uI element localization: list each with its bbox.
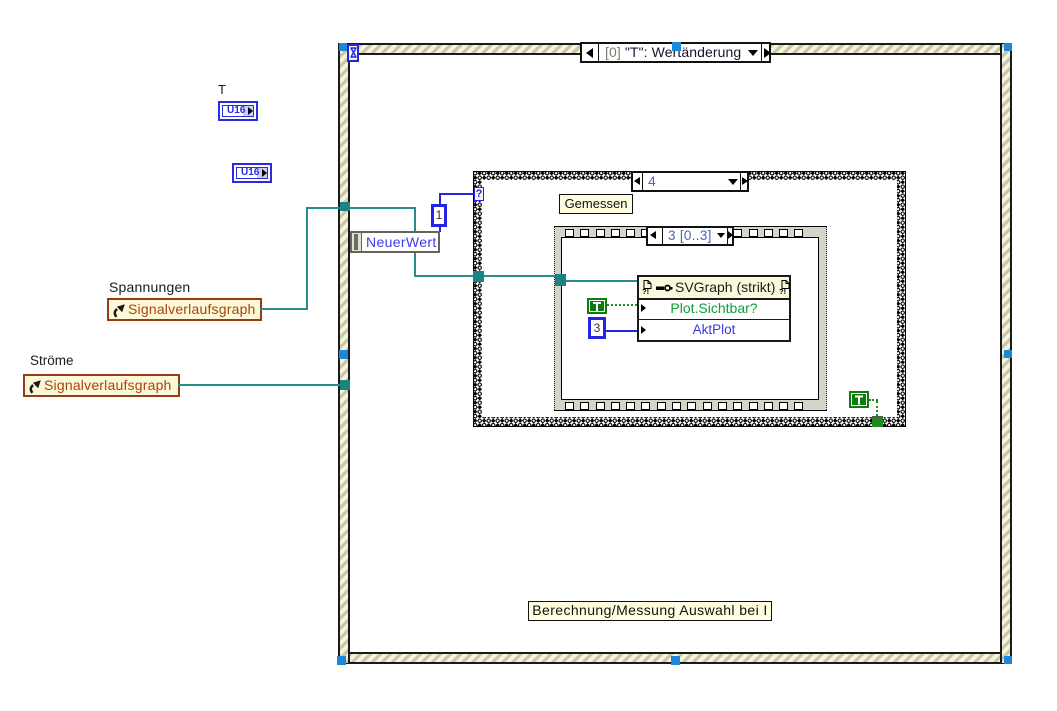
- label Gemessen: [559, 194, 633, 214]
- tunnel Spannungen on event border: [340, 202, 350, 211]
- blue wire 1 to NeuerWert: [439, 227, 441, 232]
- local variable NeuerWert: [350, 231, 440, 253]
- header: [639, 277, 789, 300]
- wire Spannungen horizontal: [260, 308, 308, 310]
- sequence sprocket holes bottom: [565, 402, 574, 410]
- label T: [218, 82, 226, 97]
- sequence left border: [554, 227, 562, 410]
- wire Spannungen to border tunnel: [306, 207, 416, 209]
- wire horizontal to case: [414, 275, 562, 277]
- control refnum Stroeme: Signalverlaufsgraph: [23, 374, 180, 397]
- control refnum Spannungen: Signalverlaufsgraph: [107, 298, 262, 321]
- case structure border strips: [473, 171, 906, 180]
- label Stroeme: [30, 353, 74, 368]
- selection handle top-right: [1004, 43, 1012, 51]
- page icon right: [781, 280, 790, 289]
- row AktPlot: [639, 320, 789, 340]
- sequence label 3 [0..3]: [646, 226, 734, 246]
- selection handle mid-left: [339, 350, 348, 359]
- blue wire 1 to selector: [439, 193, 441, 204]
- blue wire 3 to node: [606, 330, 637, 332]
- timeout terminal (hourglass): [347, 44, 359, 62]
- dotted wire T to node: [607, 304, 637, 306]
- green tunnel on case bottom border: [872, 416, 883, 427]
- case selector terminal ?: [474, 187, 484, 201]
- sequence bottom border: [554, 399, 827, 411]
- label Spannungen: [109, 279, 190, 295]
- title: [675, 279, 775, 295]
- sequence sprocket holes top: [565, 229, 574, 237]
- boolean constant T (1): [587, 298, 607, 314]
- event structure left border: [338, 44, 350, 663]
- terminal U16 (T control): [218, 101, 258, 121]
- row Plot.Sichtbar?: [639, 298, 789, 320]
- selection handle top-center: [672, 42, 681, 51]
- selection handle top-left: [339, 43, 347, 51]
- numeric constant 3: [588, 317, 606, 339]
- wire Spannungen vertical: [306, 207, 308, 310]
- tunnel on sequence left border: [555, 274, 566, 286]
- sequence inner frame: [561, 237, 819, 400]
- free label Berechnung: [528, 601, 772, 621]
- terminal U16 (second): [232, 163, 272, 183]
- case selector label "4": [631, 171, 749, 192]
- tunnel Stroeme on event border: [340, 380, 350, 390]
- event structure right border: [1000, 44, 1012, 663]
- boolean constant T (2): [849, 391, 869, 408]
- wire horizontal to property node: [562, 280, 638, 282]
- tunnel on case left border: [473, 271, 484, 282]
- wire vertical to NeuerWert: [414, 207, 416, 277]
- selection handle mid-right: [1004, 350, 1012, 358]
- page icon left: [643, 280, 652, 289]
- event structure bottom border: [338, 652, 1012, 664]
- event label [0] "T": Wertaenderung: [580, 42, 771, 63]
- dotted wire T2: [869, 399, 878, 401]
- sequence top border: [554, 226, 827, 238]
- sequence right border: [819, 227, 827, 410]
- linker icon: [656, 283, 673, 293]
- numeric constant 1: [431, 204, 447, 227]
- selection handle bottom-center: [671, 656, 680, 665]
- selection handle bottom-right: [1004, 656, 1012, 664]
- wire Stroeme horizontal: [178, 384, 346, 386]
- event structure top border: [338, 43, 1012, 55]
- selection handle bottom-left: [337, 656, 346, 665]
